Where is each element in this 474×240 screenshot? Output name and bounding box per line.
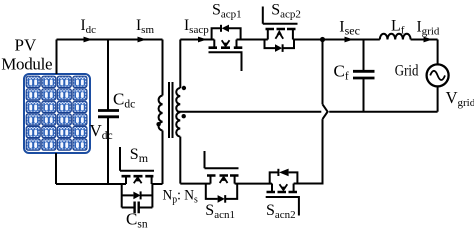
- wire: secondary top rail to Sacp1: [180, 39, 214, 41]
- wire: rail between Sacp1 and Sacp2: [237, 39, 268, 41]
- svg-text:Sacn2: Sacn2: [266, 202, 296, 221]
- wire: Cf upper lead: [363, 40, 365, 72]
- svg-text:Cdc: Cdc: [113, 90, 135, 111]
- transistor Sm: [120, 147, 154, 184]
- wire: top dc rail: [57, 39, 163, 41]
- transistor Sacn1: [205, 151, 239, 203]
- polarity dot secondary bottom: [182, 114, 186, 118]
- wire crossover hop: [323, 104, 328, 119]
- wire: rail secondary to Sacn1: [180, 183, 210, 185]
- current arrow Ism: [138, 37, 147, 43]
- svg-text:Sacn1: Sacn1: [205, 202, 235, 221]
- PV module: [24, 74, 90, 153]
- PV module label: [1, 36, 52, 74]
- wire: hop down to Sacn2 corner: [294, 119, 323, 183]
- svg-text:Sacp1: Sacp1: [212, 1, 242, 20]
- svg-text:Idc: Idc: [81, 17, 97, 36]
- wire: Cdc upper lead: [107, 40, 109, 111]
- svg-text:Igrid: Igrid: [417, 18, 440, 37]
- transistor Sacp1: [209, 25, 243, 71]
- transformer T1 core: [169, 82, 173, 138]
- svg-text:Vgrid: Vgrid: [446, 88, 474, 109]
- svg-text:PV: PV: [15, 36, 37, 55]
- wire: bottom dc rail right segment: [152, 183, 163, 185]
- wire: Cf lower lead: [363, 78, 365, 112]
- transformer T1 primary winding: [159, 96, 163, 131]
- wire: rail Sacp2 to output node: [293, 39, 364, 41]
- transistor Sacn2: [266, 169, 299, 216]
- capacitor Cdc: [98, 111, 119, 117]
- svg-text:Vdc: Vdc: [90, 121, 113, 142]
- svg-text:Lf: Lf: [391, 17, 405, 36]
- wire: secondary top lead: [179, 40, 181, 89]
- snubber loop with diode and capacitor Csn: [122, 184, 153, 213]
- svg-text:Ism: Ism: [136, 17, 154, 36]
- svg-text:Np: Ns: Np: Ns: [163, 188, 198, 205]
- svg-text:Csn: Csn: [126, 210, 148, 231]
- svg-text:Isacp: Isacp: [184, 17, 209, 36]
- transformer T1 secondary winding: [176, 88, 180, 137]
- wire: transformer primary top lead: [162, 40, 164, 96]
- svg-text:Sacp2: Sacp2: [271, 1, 301, 20]
- wire: return rail right of hop: [329, 111, 437, 113]
- wire: grid branch upper lead: [437, 40, 439, 65]
- ac source Grid: [427, 64, 449, 86]
- transistor Sacp2: [263, 7, 298, 52]
- wire: PV negative lead: [55, 153, 57, 184]
- wire: bottom dc rail left segment: [56, 183, 126, 185]
- current arrow Isec: [345, 37, 354, 43]
- capacitor Cf: [353, 71, 375, 78]
- svg-text:Cf: Cf: [334, 62, 349, 83]
- wire: Cdc lower lead: [107, 117, 109, 184]
- inductor Lf: [380, 34, 411, 40]
- polarity dot primary: [156, 122, 160, 126]
- svg-text:Module: Module: [1, 55, 52, 74]
- wire: grid branch lower lead: [437, 86, 439, 111]
- current arrow Idc: [84, 37, 93, 43]
- wire: Lf to grid corner: [411, 39, 438, 41]
- svg-text:Grid: Grid: [395, 62, 419, 79]
- node: output junction: [320, 37, 325, 42]
- wire: rail between Sacn1 and Sacn2: [235, 183, 272, 185]
- wire: return rail left of hop: [178, 111, 321, 113]
- current arrow Igrid: [424, 37, 433, 43]
- wire: PV positive lead: [56, 40, 58, 75]
- polarity dot secondary top: [182, 86, 186, 90]
- svg-text:Sm: Sm: [130, 146, 149, 165]
- current arrow Isacp: [198, 37, 207, 43]
- wire: secondary bottom lead: [179, 137, 181, 184]
- wire: rail Cf to Lf: [364, 39, 380, 41]
- svg-text:Isec: Isec: [339, 19, 360, 38]
- wire: transformer primary bottom lead: [162, 131, 164, 185]
- wire: output node down to hop: [322, 40, 324, 105]
